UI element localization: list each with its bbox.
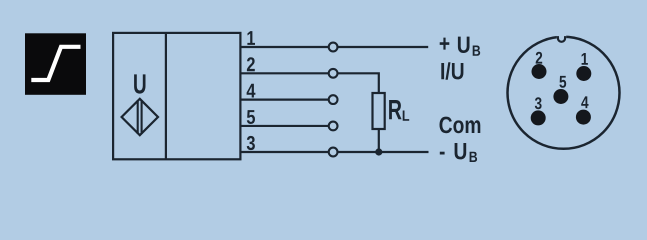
wire 2 continuation to resistor (337, 73, 378, 93)
pin 2 number label (536, 52, 543, 64)
resistor RL (373, 93, 385, 129)
pin 4 number label (581, 96, 588, 108)
pin 2 (532, 64, 547, 79)
pin 1 (576, 66, 591, 81)
wire 4 (240, 98, 328, 100)
net label UB : B subscript (473, 46, 481, 56)
divider (165, 33, 167, 159)
terminal 4 (329, 95, 338, 104)
net label -UB : U (455, 143, 467, 159)
net label UB : U (458, 37, 470, 53)
terminal 1 (329, 43, 338, 52)
label U (134, 74, 145, 93)
net label + (440, 38, 450, 50)
pin label 5 (247, 110, 255, 124)
pin 3 number label (535, 97, 542, 109)
analog output icon (25, 33, 86, 95)
wire 3 continuation to -UB (337, 151, 428, 153)
keying notch (557, 35, 566, 42)
pin 5 number label (559, 76, 566, 88)
pin label 4 (247, 84, 256, 98)
wire 1 continuation to +UB (337, 46, 428, 48)
value label L subscript (403, 111, 410, 121)
wire resistor to junction (378, 129, 380, 152)
terminal 2 (329, 69, 338, 78)
wire 1 (240, 46, 328, 48)
pin label 1 (247, 31, 255, 45)
terminal 3 (329, 148, 338, 157)
pin label 3 (247, 136, 255, 150)
net label I/U (441, 62, 463, 79)
wire 2 (240, 72, 328, 74)
value label R (389, 100, 402, 119)
pin 1 number label (582, 53, 588, 65)
pin 3 (531, 110, 546, 125)
net label - (minus) (440, 152, 445, 155)
terminal 5 (329, 122, 338, 131)
connector outline (508, 37, 620, 149)
wire 5 (240, 125, 328, 127)
junction (375, 148, 382, 155)
pin 4 (576, 110, 591, 125)
sensor body (113, 33, 240, 159)
wire 3 (240, 151, 328, 153)
net label -UB : B subscript (470, 152, 478, 162)
pin 5 (553, 89, 568, 104)
amplifier symbol U1 (122, 99, 158, 135)
pin label 2 (247, 57, 255, 71)
net label Com (440, 117, 481, 134)
